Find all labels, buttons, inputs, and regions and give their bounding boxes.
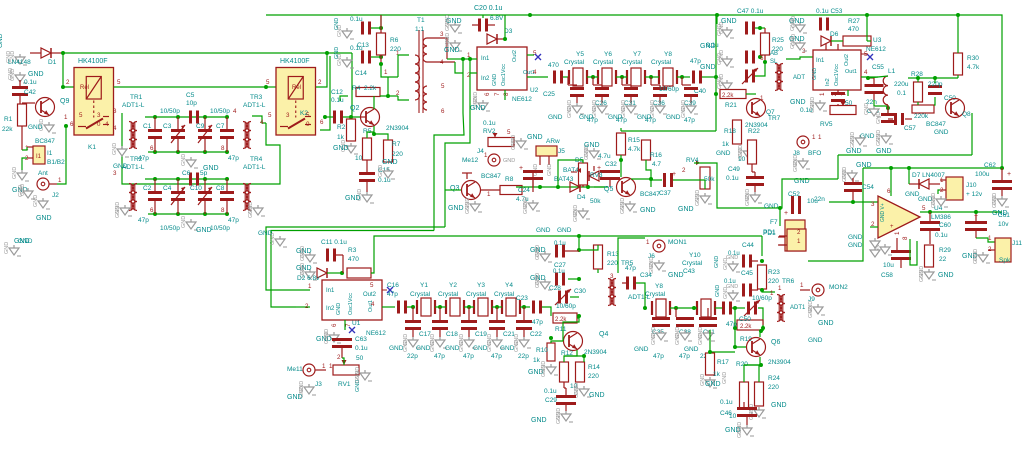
svg-text:10: 10 xyxy=(738,156,746,163)
resistor R3 xyxy=(347,247,371,278)
transformer TR1 xyxy=(113,94,145,149)
svg-text:R15: R15 xyxy=(628,137,640,144)
junction c28 node xyxy=(577,277,581,281)
wire u1 out4 xyxy=(382,306,395,308)
ground C53b xyxy=(789,34,807,51)
ground C27 xyxy=(530,245,552,262)
wire c41b out xyxy=(758,308,763,325)
wire C37 wires xyxy=(651,179,662,181)
junction c42b xyxy=(733,306,737,310)
ground J11 xyxy=(962,249,990,264)
svg-text:1: 1 xyxy=(797,238,801,245)
svg-text:GND: GND xyxy=(790,99,806,106)
wire R4 right xyxy=(380,77,388,96)
svg-text:5: 5 xyxy=(117,79,121,86)
svg-text:GND: GND xyxy=(557,227,572,234)
connector J8 BFO xyxy=(793,134,822,157)
pin label R6-T1 xyxy=(384,69,388,76)
junction R25 top xyxy=(758,26,762,30)
junction r10 top xyxy=(549,336,553,340)
capacitor C26 xyxy=(587,77,609,124)
svg-text:2: 2 xyxy=(318,79,322,86)
transistor Q6 xyxy=(747,338,792,367)
svg-text:GND V+: GND V+ xyxy=(880,203,886,222)
wire loop left xyxy=(838,154,972,156)
capacitor C1 xyxy=(138,117,162,162)
Q3 base lead xyxy=(462,173,472,179)
svg-text:GND: GND xyxy=(12,167,18,179)
wire R16 lead xyxy=(646,160,651,187)
svg-text:GND: GND xyxy=(445,15,451,27)
svg-text:47p: 47p xyxy=(387,291,398,298)
svg-text:In1: In1 xyxy=(326,288,335,294)
svg-text:0.1u: 0.1u xyxy=(483,120,496,127)
svg-text:47p: 47p xyxy=(228,217,239,224)
svg-text:GND: GND xyxy=(270,233,276,245)
ground J2 xyxy=(33,195,52,222)
svg-text:Crystal: Crystal xyxy=(410,291,431,298)
ground C44 xyxy=(714,255,740,272)
wire U2 p1 down xyxy=(434,59,464,231)
wire y7-y8 xyxy=(645,76,659,78)
wire Q3 base xyxy=(445,189,461,191)
svg-text:1: 1 xyxy=(818,134,822,141)
svg-text:C63: C63 xyxy=(355,336,367,343)
svg-text:GND: GND xyxy=(18,238,33,245)
wire r11 out xyxy=(577,317,579,319)
svg-text:GND: GND xyxy=(536,227,551,234)
svg-text:8: 8 xyxy=(221,145,225,152)
svg-text:GND: GND xyxy=(634,346,649,353)
svg-text:0.1u: 0.1u xyxy=(706,42,719,49)
svg-text:GND: GND xyxy=(248,206,254,218)
svg-text:GND: GND xyxy=(745,194,751,206)
svg-text:GND: GND xyxy=(640,207,656,214)
label BAT43 D4 xyxy=(554,176,574,183)
svg-text:C62: C62 xyxy=(984,162,996,169)
junction R4 right xyxy=(386,94,390,98)
svg-text:10/50p: 10/50p xyxy=(210,108,230,115)
ground R7 xyxy=(378,159,398,179)
ground C46 xyxy=(725,422,754,438)
capacitor C6 xyxy=(182,170,208,186)
resistor R6 xyxy=(377,15,402,64)
svg-text:GND: GND xyxy=(668,272,684,279)
svg-text:Me11: Me11 xyxy=(287,366,303,373)
svg-text:GND: GND xyxy=(620,202,626,214)
svg-text:Y4: Y4 xyxy=(505,282,513,289)
pin digits f1 xyxy=(150,145,225,214)
connector J11 xyxy=(988,235,1022,264)
svg-text:0.1u: 0.1u xyxy=(800,107,813,114)
svg-text:C57: C57 xyxy=(904,125,916,132)
wire T1 sec to U2 in1 xyxy=(447,58,463,60)
svg-text:Spk: Spk xyxy=(999,257,1011,264)
wire q6 c up xyxy=(759,331,761,337)
svg-text:100u: 100u xyxy=(975,171,990,178)
junction y23 xyxy=(467,305,471,309)
wire T1 s4 xyxy=(427,61,455,63)
svg-text:GND: GND xyxy=(715,285,721,297)
svg-text:Ant: Ant xyxy=(38,170,48,177)
label 47p r19 xyxy=(726,321,737,328)
svg-text:5p: 5p xyxy=(200,170,208,177)
svg-text:HK4100F: HK4100F xyxy=(280,58,310,65)
junction c40 out xyxy=(714,75,718,79)
connector J5 ARW xyxy=(533,138,565,176)
wire RV4 wiper out xyxy=(694,163,768,208)
resistor R12 xyxy=(560,350,578,390)
svg-text:10/50p: 10/50p xyxy=(160,108,180,115)
diode D4 xyxy=(570,182,586,201)
svg-text:1: 1 xyxy=(812,134,816,141)
svg-text:TR1: TR1 xyxy=(130,94,143,101)
junction y12 xyxy=(438,305,442,309)
junction v+ b xyxy=(907,166,911,170)
svg-text:GND: GND xyxy=(556,412,562,424)
transformer TR2 xyxy=(113,156,145,211)
svg-text:Q6: Q6 xyxy=(771,339,780,346)
wire c52 down xyxy=(779,208,781,226)
wire q4b-r10 xyxy=(551,341,563,343)
wire q4e2 xyxy=(564,356,584,362)
svg-text:22p: 22p xyxy=(407,353,418,360)
wire K2 pin4 drop xyxy=(265,123,267,131)
capacitor C21 xyxy=(489,307,515,360)
wire Ant to node xyxy=(57,126,66,184)
resistor R15 xyxy=(617,133,642,155)
svg-text:C37: C37 xyxy=(659,190,671,197)
junction R15 bot xyxy=(619,158,623,162)
junction c61 top xyxy=(974,210,978,214)
wire u4 in2 xyxy=(870,226,878,228)
U2 pins xyxy=(467,50,537,96)
svg-text:2: 2 xyxy=(682,167,686,174)
svg-text:GND: GND xyxy=(764,203,779,210)
svg-text:5: 5 xyxy=(441,83,445,90)
svg-text:4: 4 xyxy=(864,69,868,76)
resistor R22 xyxy=(738,128,760,164)
svg-text:2N3904: 2N3904 xyxy=(768,359,791,366)
svg-text:LN4148: LN4148 xyxy=(8,59,31,66)
svg-text:50k: 50k xyxy=(590,198,601,205)
svg-text:Rel: Rel xyxy=(292,85,301,91)
wire c58 loop xyxy=(910,239,917,265)
junction u4 out xyxy=(928,210,932,214)
U1 pins xyxy=(305,282,375,327)
svg-text:GND: GND xyxy=(705,381,721,388)
svg-text:GND: GND xyxy=(808,306,814,318)
svg-text:U2: U2 xyxy=(530,87,539,94)
svg-text:5: 5 xyxy=(922,205,926,212)
wire U2 pin1 xyxy=(463,58,477,60)
capacitor C36 xyxy=(645,77,667,124)
crystal Y10 xyxy=(682,252,715,317)
transistor Q3 xyxy=(450,173,501,200)
pot RV4 xyxy=(682,157,715,189)
transformer TR7 xyxy=(760,51,783,122)
wire tr5 out xyxy=(618,238,645,273)
capacitor C11 xyxy=(321,239,347,262)
capacitor C38 xyxy=(676,308,694,360)
junction c52 xyxy=(778,206,782,210)
ground D5 xyxy=(584,142,601,160)
svg-text:C42: C42 xyxy=(24,89,36,96)
junction q4e xyxy=(582,354,586,358)
junction rail-R27 xyxy=(865,13,869,17)
svg-text:220: 220 xyxy=(768,278,779,285)
svg-text:GND: GND xyxy=(473,92,479,104)
svg-text:GND: GND xyxy=(651,333,657,345)
wire K2 right exit xyxy=(320,56,330,130)
junction U2 in1 xyxy=(461,57,465,61)
ground filter2 xyxy=(181,216,212,234)
wire r13 bot xyxy=(597,269,599,273)
ground C35 xyxy=(634,327,668,353)
wire y2-y3 xyxy=(464,306,474,308)
svg-text:GND: GND xyxy=(818,320,834,327)
svg-text:C27: C27 xyxy=(554,262,566,269)
junction v+ c xyxy=(1000,166,1004,170)
wire U3 pin7 gnd xyxy=(847,90,849,96)
svg-text:Y8: Y8 xyxy=(664,51,672,58)
svg-text:2.2k: 2.2k xyxy=(740,324,752,330)
connector J3 xyxy=(287,364,326,388)
svg-text:R24: R24 xyxy=(768,375,780,382)
svg-text:1: 1 xyxy=(819,92,826,96)
svg-text:GND: GND xyxy=(675,333,681,345)
svg-text:GND: GND xyxy=(719,50,725,62)
wire U2 pin4 xyxy=(527,76,548,78)
svg-text:NE612: NE612 xyxy=(366,330,386,337)
svg-text:+: + xyxy=(784,210,788,217)
resistor R8 xyxy=(481,176,522,198)
capacitor C25 xyxy=(543,62,563,98)
svg-text:5: 5 xyxy=(266,79,270,86)
capacitor C57 xyxy=(888,113,916,132)
wire d2-r3 xyxy=(327,272,342,274)
junction f2b x205 xyxy=(203,212,207,216)
capacitor C24 xyxy=(516,165,543,203)
svg-text:4.7u: 4.7u xyxy=(598,153,611,160)
svg-text:Crystal: Crystal xyxy=(645,291,666,298)
junction r17 top xyxy=(708,350,712,354)
wire c34 out xyxy=(636,283,645,308)
svg-text:GND: GND xyxy=(33,195,39,207)
svg-text:C47 0.1u: C47 0.1u xyxy=(737,8,764,15)
junction D1 out xyxy=(61,51,65,55)
wire U2 out5 stub xyxy=(527,54,534,56)
junction aud2 xyxy=(556,185,560,189)
resistor R1 xyxy=(2,104,27,150)
ground loop xyxy=(842,162,872,182)
svg-text:Y1: Y1 xyxy=(420,282,428,289)
svg-text:R25: R25 xyxy=(772,37,784,44)
svg-text:BC847: BC847 xyxy=(35,138,55,145)
wire D1 to K2 xyxy=(63,52,352,54)
transformer TR6 xyxy=(770,285,806,322)
svg-text:8: 8 xyxy=(503,92,510,96)
svg-text:0.1u: 0.1u xyxy=(355,345,368,352)
junction R16 bot xyxy=(649,177,653,181)
svg-text:HK4100F: HK4100F xyxy=(78,58,108,65)
svg-text:GND: GND xyxy=(465,202,471,214)
svg-text:GND: GND xyxy=(334,47,340,59)
svg-text:3: 3 xyxy=(871,201,875,208)
wire r19 right net xyxy=(762,325,764,331)
wire T1 p1 xyxy=(398,55,409,77)
svg-text:C1: C1 xyxy=(143,123,152,130)
svg-text:GND: GND xyxy=(791,16,797,28)
svg-text:Y2: Y2 xyxy=(449,282,457,289)
svg-text:GND: GND xyxy=(403,340,409,352)
svg-text:C19: C19 xyxy=(475,331,487,338)
svg-text:C43: C43 xyxy=(683,268,695,275)
resistor R10 xyxy=(533,343,555,364)
capacitor C65 xyxy=(866,99,895,123)
svg-text:C2: C2 xyxy=(143,185,152,192)
svg-text:220u: 220u xyxy=(894,81,909,88)
svg-text:R29: R29 xyxy=(939,247,951,254)
wire C20 top xyxy=(482,15,484,18)
svg-text:6: 6 xyxy=(150,145,154,152)
trimmer C3 xyxy=(160,108,185,152)
ground J9 xyxy=(808,301,834,327)
capacitor C62 xyxy=(975,162,1012,196)
svg-text:GND: GND xyxy=(850,136,856,148)
junction D3 xyxy=(503,37,507,41)
svg-text:0.1u: 0.1u xyxy=(544,388,557,395)
svg-text:+ 12v: + 12v xyxy=(966,191,983,198)
svg-text:GND: GND xyxy=(345,195,361,202)
svg-text:C45: C45 xyxy=(741,270,753,277)
svg-text:0.1u: 0.1u xyxy=(553,269,565,275)
svg-text:47p: 47p xyxy=(138,155,149,162)
junction K1K2 xyxy=(264,85,268,89)
wire R1-I1 xyxy=(22,147,27,150)
junction f1b x205 xyxy=(203,150,207,154)
wire C47-R25 xyxy=(755,27,765,29)
ground rv5b xyxy=(876,130,893,155)
junction f1t x227 xyxy=(225,115,229,119)
svg-text:GND: GND xyxy=(336,303,342,315)
svg-text:GND: GND xyxy=(848,234,863,241)
ground C20a xyxy=(445,15,462,33)
svg-text:+: + xyxy=(672,171,676,178)
svg-text:0: 0 xyxy=(306,121,310,128)
svg-text:GND: GND xyxy=(382,159,398,166)
svg-text:C52: C52 xyxy=(788,191,800,198)
wire TR1-f1 xyxy=(144,116,146,118)
svg-text:GND: GND xyxy=(608,114,623,121)
junction r3 in xyxy=(340,271,344,275)
svg-text:GND: GND xyxy=(666,114,681,121)
capacitor C20 xyxy=(472,5,503,32)
svg-text:10/50p: 10/50p xyxy=(160,225,180,232)
svg-text:GND: GND xyxy=(846,148,862,155)
svg-text:2: 2 xyxy=(305,303,309,310)
junction r28 top xyxy=(916,76,920,80)
ground mon2 area xyxy=(808,337,823,344)
wire C14 out xyxy=(371,56,381,58)
svg-text:GND: GND xyxy=(547,164,553,176)
svg-text:4.7: 4.7 xyxy=(652,161,661,168)
svg-text:GND: GND xyxy=(523,202,529,214)
capacitor C63 xyxy=(332,336,368,358)
wire C12-R2 xyxy=(343,116,360,118)
svg-text:50k: 50k xyxy=(704,176,715,183)
svg-text:2: 2 xyxy=(66,79,70,86)
wire u1 pin1 xyxy=(277,289,310,291)
wire audio main xyxy=(516,186,605,188)
svg-text:Y5: Y5 xyxy=(576,51,584,58)
svg-text:D1: D1 xyxy=(48,59,57,66)
capacitor C8 xyxy=(216,179,239,224)
svg-text:4: 4 xyxy=(113,125,117,132)
transistor Q8 xyxy=(926,99,971,137)
wire y6-y7 xyxy=(616,76,627,78)
relay K2 xyxy=(276,58,316,135)
junction bus-R21 xyxy=(714,92,718,96)
diode D2 zener xyxy=(297,268,327,282)
capacitor C49 xyxy=(726,164,764,192)
transistor Q5 xyxy=(604,178,660,199)
capacitor C15 xyxy=(359,160,391,192)
junction f2t x178 xyxy=(176,177,180,181)
svg-text:10/60p: 10/60p xyxy=(556,303,576,310)
svg-text:RV1: RV1 xyxy=(338,381,351,388)
svg-text:TR6: TR6 xyxy=(782,278,795,285)
svg-text:7: 7 xyxy=(345,323,352,327)
svg-text:GND: GND xyxy=(931,196,937,208)
svg-text:R2: R2 xyxy=(337,124,346,131)
svg-text:GND: GND xyxy=(324,332,330,344)
wire u4 pin6 xyxy=(890,168,892,196)
ground R24 xyxy=(749,402,787,420)
wire r19 left net xyxy=(734,308,736,328)
svg-text:+: + xyxy=(597,165,601,172)
svg-text:ADT1: ADT1 xyxy=(790,305,806,311)
ground C18 xyxy=(416,334,447,352)
svg-text:4: 4 xyxy=(260,119,264,126)
svg-text:R16: R16 xyxy=(650,152,662,159)
svg-text:Crystal: Crystal xyxy=(651,59,672,66)
capacitor C52 xyxy=(784,191,818,217)
capacitor C42 xyxy=(12,79,37,104)
svg-text:47p: 47p xyxy=(434,353,445,360)
connector J10 xyxy=(940,177,983,200)
wire c42b out xyxy=(732,307,735,309)
svg-text:C6: C6 xyxy=(182,170,191,177)
svg-text:C46: C46 xyxy=(720,410,732,417)
svg-text:1: 1 xyxy=(487,191,491,198)
svg-text:ADT1-L: ADT1-L xyxy=(243,164,266,171)
svg-text:TR3: TR3 xyxy=(250,94,263,101)
svg-text:C44: C44 xyxy=(742,242,754,249)
U3 pin3 xyxy=(793,48,806,81)
svg-text:PD1: PD1 xyxy=(763,229,776,236)
svg-text:0.1: 0.1 xyxy=(897,90,906,97)
svg-text:22p: 22p xyxy=(518,353,529,360)
svg-text:2N3904: 2N3904 xyxy=(386,125,409,132)
svg-text:1: 1 xyxy=(384,69,388,76)
capacitor U3 bypass xyxy=(831,90,845,108)
ground c63 xyxy=(316,329,341,344)
junction r19 l xyxy=(733,326,737,330)
junction c54 xyxy=(851,200,855,204)
svg-text:C8: C8 xyxy=(216,185,225,192)
svg-text:47p: 47p xyxy=(653,353,664,360)
